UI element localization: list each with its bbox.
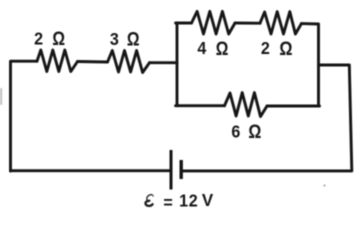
svg-text:Ω: Ω <box>248 121 261 143</box>
svg-text:2: 2 <box>34 29 43 49</box>
scan speck <box>324 185 326 187</box>
svg-text:1: 1 <box>179 191 188 211</box>
svg-text:Ω: Ω <box>216 38 229 60</box>
wire: box top-left segment <box>176 22 192 25</box>
resistor R5 6ohm zigzag <box>225 93 268 117</box>
resistor R4 2ohm zigzag <box>260 12 301 34</box>
label R1 value 2 ohm <box>34 27 65 49</box>
svg-text:Ω: Ω <box>279 38 292 59</box>
wire between R3 and R4 <box>235 22 260 25</box>
wire between R1 and R2 <box>78 60 108 63</box>
wire into parallel box <box>150 61 178 64</box>
label R5 value 6 ohm <box>231 121 261 143</box>
wire: box top-right corner + right vertical <box>301 24 318 106</box>
label R3 value 4 ohm <box>197 38 228 60</box>
label R4 value 2 ohm <box>261 38 293 59</box>
svg-text:V: V <box>202 190 214 210</box>
svg-text:=: = <box>163 193 173 212</box>
svg-text:Ω: Ω <box>127 28 140 50</box>
wire: left vertical + top-left horizontal <box>11 61 38 171</box>
svg-text:2: 2 <box>261 38 270 58</box>
svg-text:4: 4 <box>197 38 207 58</box>
wire: box bottom-right segment <box>267 105 320 108</box>
wire: box left vertical <box>176 23 179 106</box>
label R2 value 3 ohm <box>110 28 140 50</box>
battery B1 long plate <box>170 150 173 190</box>
battery B1 short plate <box>179 160 182 179</box>
svg-text:3: 3 <box>110 29 119 49</box>
svg-text:Ω: Ω <box>52 27 65 49</box>
resistor R2 3ohm zigzag <box>108 51 150 73</box>
svg-text:6: 6 <box>231 122 240 142</box>
scan smudge on left edge <box>0 88 2 105</box>
wire: box bottom-left segment <box>176 104 225 107</box>
svg-text:2: 2 <box>189 191 198 211</box>
wire: exit stub + outer right vertical + bottom-right run <box>183 65 352 171</box>
resistor R1 2ohm zigzag <box>37 50 78 72</box>
scan speck near epsilon curl <box>152 195 154 197</box>
resistor R3 4ohm zigzag <box>192 11 236 34</box>
wire: bottom-left run to battery <box>11 169 171 172</box>
label battery emf symbol (script epsilon) <box>147 195 152 201</box>
